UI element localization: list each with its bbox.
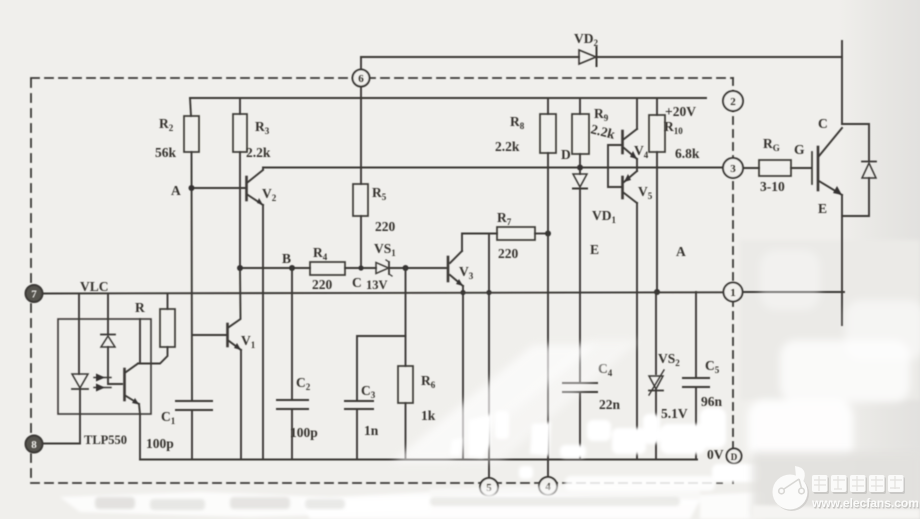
zener VS2 [649,376,663,389]
wire: VD1 cathode down to C4 [579,189,581,384]
wire: RG to gate [791,167,811,169]
wire: R top lead to VLC line [167,294,169,309]
faint gray remnants bottom-left [95,497,680,510]
wire: LED cathode to pin8 terminal [43,389,80,444]
wire: R2 column / node A / C1 column [190,98,191,116]
svg-text:+20V: +20V [665,104,696,119]
wire: IGBT collector vertical [841,41,843,124]
LED diode [72,374,88,388]
wire: B line [240,267,310,269]
capacitor C5 [683,377,709,379]
svg-text:220: 220 [375,219,396,234]
svg-text:0V: 0V [707,447,724,462]
transistor V1 [226,324,229,346]
svg-text:VLC: VLC [80,279,109,294]
wire: top line with VD2 to IGBT collector [361,56,579,58]
node dot R10 on 0V line [654,289,660,295]
dashed box left border [30,79,32,477]
node B dot [289,265,295,271]
wire: +20V top rail [190,97,706,99]
resistor R (opto pull-up) [160,309,175,347]
IGBT emitter lead [819,181,842,195]
svg-text:8: 8 [31,439,37,451]
svg-text:R: R [135,300,145,315]
svg-text:96n: 96n [701,394,723,409]
pin circles [26,70,744,497]
resistor R5 [353,184,368,216]
wire: C3 bottom lead [356,409,358,459]
svg-text:A: A [676,244,686,259]
wire: ground rail at bottom [140,459,697,461]
IGBT gate bar [811,152,813,184]
resistor R6 [398,366,413,403]
node dot V3 emitter on 0V line [460,290,465,295]
wire: C5 bottom lead [695,387,697,459]
pin 4 circle [539,477,557,495]
dashed box bottom border [31,482,722,484]
erased watermark scribbles center [450,408,762,491]
wire: collector stub above box [139,319,141,364]
wire: freewheel diode branch [842,124,869,161]
resistor R7 [497,227,535,240]
svg-text:E: E [818,201,827,216]
wire: C5 column [695,292,697,378]
wire: emitter vertical [841,195,843,325]
svg-text:22n: 22n [599,397,621,412]
wire: LED column from VLC line [78,294,80,375]
transistor V5 [621,177,624,198]
elecfans watermark [752,452,920,519]
optocoupler box TLP550 [58,319,151,414]
resistor RG [759,160,791,176]
svg-text:2.2k: 2.2k [246,145,271,160]
svg-text:6: 6 [358,73,364,85]
resistor R3 [233,114,247,152]
terminal pin 8 [26,436,43,453]
diode VD1 [573,174,587,187]
capacitor C4 [563,382,597,384]
driver pair base bracket [608,145,622,187]
wire: C node column down to C3/R6 bracket [405,268,407,336]
capacitor C1 [176,400,212,402]
wire: node A to V2 base [192,187,245,189]
svg-text:G: G [794,142,805,157]
node dot B-line left [237,265,243,271]
transistor V4 [621,131,624,153]
wire: V1 emitter to ground rail [240,350,242,459]
wire: R9 column [579,98,581,114]
wire: V1 base from A column [193,334,226,336]
terminal pin 7 [26,285,43,302]
svg-text:TLP550: TLP550 [84,433,127,447]
capacitor C2 [277,399,308,401]
logo circle [774,476,809,511]
svg-text:220: 220 [312,277,333,292]
zener VS1 [376,263,389,274]
wire: R3 column through A wire and B node down to V1 collector [239,98,241,114]
svg-text:2: 2 [730,96,736,108]
wire: R5 bottom lead [360,216,362,268]
wire: V2 collector line across to node 3 [263,168,723,170]
wire: V5 collector down to ground rail [636,203,638,459]
pin 3 circle [723,158,743,178]
resistor R10 [649,115,665,152]
svg-text:1: 1 [730,287,736,299]
wire: phototransistor emitter to ground rail [139,404,140,460]
svg-text:C: C [352,275,362,290]
resistor R9 [572,114,589,154]
wire: internal diode column [107,294,109,335]
transistor V2 [245,177,248,200]
svg-text:D: D [561,147,571,162]
wire: R6 top lead [405,336,407,366]
capacitor C3 [345,400,373,402]
wire: R6 bottom lead [405,403,407,459]
wire: R9 bottom to node D [579,154,581,174]
node dot R7/R8 [545,231,551,237]
wire: R7 right lead to R8 column [535,233,548,235]
svg-text:www.elecfans.com: www.elecfans.com [811,496,919,510]
svg-text:D: D [731,452,738,462]
svg-text:A: A [171,183,181,198]
svg-text:3-10: 3-10 [760,179,785,194]
svg-text:B: B [282,251,291,266]
pin 5 circle [480,478,498,496]
node dot C node [403,265,409,271]
svg-text:1k: 1k [421,408,436,423]
wire: V3 emitter down to ground rail [462,286,464,459]
wire: V4 collector to +20V rail [636,98,638,129]
pin 2 circle [723,91,743,111]
right side soft white wash [748,250,920,462]
svg-text:13V: 13V [366,278,388,292]
wire: V5 emitter up to output line [636,168,638,172]
svg-text:56k: 56k [155,145,177,160]
node dot R5 bottom [358,265,363,270]
wire: R8 bottom through R7 node down to pin 4 [547,153,549,477]
svg-text:E: E [590,242,599,257]
svg-text:C: C [818,116,828,131]
resistor R8 [540,114,556,153]
phototransistor [123,369,126,400]
resistor R2 [184,116,199,152]
wire: R10 bottom lead to 0V line [656,152,658,292]
0V pin circle [727,449,742,464]
svg-text:100p: 100p [146,436,174,451]
wire: node3 to RG [743,167,759,169]
wire: R8 column [547,98,549,114]
wire: C2 bottom lead [291,409,293,459]
freewheel diode [862,163,876,178]
wire: R10 column [656,98,658,115]
chinese glyph blobs [814,477,906,494]
wire: pin5 column [488,234,490,479]
wire: VS2 bottom lead [655,390,657,459]
bottom strip smears [60,485,765,519]
dashed box top border [31,77,733,79]
node dot pin5 column on 0V line [486,290,491,295]
node A dot [189,185,195,191]
wire: phototransistor collector to R [138,347,168,364]
IGBT collector lead [819,128,842,156]
pin 1 circle [724,283,743,302]
diode VD2 [579,50,596,64]
wire: R2 bottom to A to C1 [191,152,194,401]
resistor R4 [310,262,345,275]
svg-text:2.2k: 2.2k [495,139,520,154]
svg-text:3: 3 [730,163,736,175]
wire: main 0V line from pin7 to IGBT emitter [42,292,723,293]
svg-text:5.1V: 5.1V [661,406,688,421]
wire: V4 emitter to output line [636,159,638,168]
internal diode [101,334,115,336]
wire: C2 column from node B [291,268,293,400]
node D dot [577,165,583,171]
IGBT body bar [817,147,820,190]
subtle diagonal light band [392,345,595,462]
wire: V1 collector riser [229,268,241,327]
wire: bracket to C3 [357,336,406,401]
wire: C4 bottom lead [579,392,581,459]
dashed box right border [732,78,734,483]
svg-text:6.8k: 6.8k [675,146,700,161]
wire: node6 column down through R5 to B line [360,57,362,70]
svg-text:100p: 100p [290,425,318,440]
wire: diode to phototransistor base [108,347,122,384]
transistor V3 [447,257,450,281]
wire: V2 emitter down to ground rail [262,205,264,459]
light arrows [94,377,111,379]
svg-text:220: 220 [498,246,519,261]
pin 6 circle [353,70,370,87]
svg-text:7: 7 [31,289,37,301]
svg-text:1n: 1n [364,423,379,438]
wire: V3 collector riser to R7 [462,234,497,252]
wire: C1 to ground rail [191,410,193,459]
wire: VS2 column [655,292,657,374]
